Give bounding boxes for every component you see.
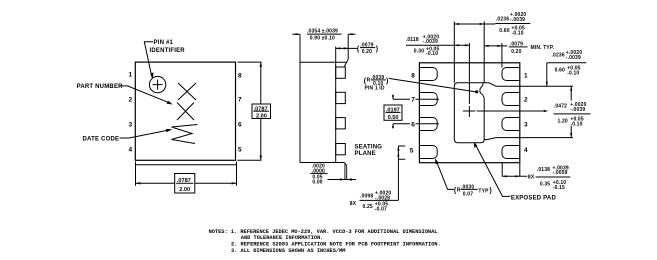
svg-text:1: 1 (129, 72, 133, 79)
svg-text:0.60: 0.60 (555, 68, 565, 74)
NOTES (209, 229, 441, 254)
svg-text:.0354 ±.0039: .0354 ±.0039 (307, 29, 338, 35)
svg-text:8: 8 (411, 72, 415, 79)
line through pad 6 (393, 123, 439, 125)
pad 2 (502, 93, 520, 106)
svg-text:.0138: .0138 (537, 167, 550, 173)
standoff foot (344, 163, 346, 180)
svg-text:PIN #1: PIN #1 (154, 40, 174, 46)
seating plane line (328, 179, 357, 181)
horizontal dimension line .0787 (136, 182, 237, 184)
svg-text:): ) (489, 187, 491, 194)
pin 1 identifier cross (153, 80, 163, 90)
extension lines bottom (136, 162, 237, 186)
boxed dimension .0787/2.00 right (252, 104, 271, 119)
svg-text:0.00: 0.00 (312, 180, 322, 186)
svg-text:.0197: .0197 (386, 107, 400, 113)
boxed dimension .0197/0.50 (384, 105, 402, 120)
svg-text:.0787: .0787 (177, 178, 191, 184)
pad 6 (419, 118, 437, 131)
bottom tab to edge (484, 138, 573, 140)
svg-text:8: 8 (238, 72, 242, 79)
leader pin1 identifier (144, 42, 153, 77)
body top edge (300, 61, 346, 63)
part number X mark 2 (177, 103, 194, 121)
body bottom edge (300, 162, 344, 164)
svg-text:0.25: 0.25 (363, 204, 373, 210)
svg-text:5: 5 (410, 147, 414, 154)
svg-text:6: 6 (238, 121, 242, 128)
dimension .0236/0.60 right (547, 62, 587, 64)
svg-text:.0472: .0472 (554, 104, 567, 110)
exposed pad outline with pin1 notch (454, 83, 484, 143)
part number X mark 1 (178, 83, 196, 100)
pitch dimension arrows (392, 95, 394, 129)
svg-text:2: 2 (129, 97, 133, 104)
svg-text:4: 4 (129, 147, 133, 154)
dimension .0079/0.20 MIN TYP (484, 45, 507, 47)
dimension .0472/1.20 (570, 86, 572, 137)
extension lines epad width (454, 22, 484, 83)
package outline (419, 63, 519, 163)
svg-text:-.0039: -.0039 (510, 17, 525, 23)
svg-text:0.07: 0.07 (463, 191, 473, 197)
leader radius typ (436, 160, 454, 189)
svg-text:PLANE: PLANE (355, 151, 376, 157)
projection line below box (136, 164, 237, 166)
RIGHT DIMENSIONS OF BOTTOM VIEW (546, 50, 591, 138)
pin 1 chamfer (345, 59, 348, 67)
svg-text:-0.10: -0.10 (570, 122, 582, 128)
svg-text:-.0059: -.0059 (553, 170, 568, 176)
svg-text:DATE CODE: DATE CODE (83, 137, 120, 143)
pad 4 width extension lines (502, 163, 520, 177)
leader date code (120, 130, 170, 138)
svg-text:7: 7 (411, 97, 415, 104)
center line horizontal with arrow (463, 110, 546, 112)
lead 2 (336, 92, 346, 103)
svg-text:0.20: 0.20 (362, 49, 372, 55)
svg-text:): ) (386, 78, 388, 85)
leader pin 1 id (389, 78, 475, 91)
svg-text:0.60: 0.60 (499, 28, 509, 34)
svg-text:0.20: 0.20 (511, 49, 521, 55)
pad 1 (502, 68, 520, 81)
top tab to edge (481, 83, 573, 87)
body left edge (299, 34, 301, 162)
svg-text:.0236: .0236 (496, 16, 509, 22)
svg-text:TYP: TYP (478, 188, 489, 194)
package body outline (135, 62, 235, 160)
svg-text:1.20: 1.20 (558, 119, 568, 125)
lead 1 (336, 67, 346, 78)
svg-text:PART NUMBER: PART NUMBER (77, 84, 124, 90)
svg-text:0.50: 0.50 (388, 115, 399, 121)
svg-text:2: 2 (524, 97, 528, 104)
BOTTOM DIMENSIONS OF BOTTOM VIEW (435, 142, 570, 202)
svg-text:6: 6 (411, 121, 415, 128)
body right edge + extension (335, 47, 337, 163)
lead 3 (336, 118, 346, 129)
svg-text:8X: 8X (350, 201, 357, 207)
MIDDLE SIDE VIEW (292, 29, 478, 186)
svg-text:2.00: 2.00 (256, 114, 267, 120)
svg-text:EXPOSED PAD: EXPOSED PAD (511, 196, 557, 202)
svg-text:1: 1 (524, 72, 528, 79)
svg-text:-0.15: -0.15 (553, 185, 565, 191)
leader part number (120, 86, 171, 103)
dimension line .0236 top (454, 23, 495, 25)
svg-text:2. REFERENCE S2083 APPLICATION: 2. REFERENCE S2083 APPLICATION NOTE FOR … (231, 242, 441, 248)
svg-text:.0236: .0236 (552, 52, 565, 58)
svg-text:-.0039: -.0039 (566, 55, 581, 61)
svg-text:0.30: 0.30 (414, 49, 424, 55)
svg-text:-0.10: -0.10 (426, 51, 438, 57)
svg-text:-.0039: -.0039 (570, 107, 585, 113)
date code zigzag (172, 125, 198, 144)
svg-text:-0.07: -0.07 (375, 206, 387, 212)
svg-text:-0.10: -0.10 (567, 70, 579, 76)
svg-text:.0118: .0118 (406, 37, 419, 43)
svg-text:4: 4 (524, 147, 528, 154)
RIGHT BOTTOM VIEW (384, 43, 573, 163)
pad 7 (419, 93, 437, 106)
dimension (.0079/0.20) (336, 47, 358, 49)
svg-text:R: R (367, 77, 371, 83)
lead 4 (336, 144, 346, 155)
leader exposed pad (475, 144, 510, 196)
svg-text:3: 3 (129, 121, 133, 128)
svg-text:): ) (376, 46, 378, 53)
svg-text:AND TOLERANCE INFORMATION.: AND TOLERANCE INFORMATION. (241, 235, 324, 241)
dimension .0354/0.90 (347, 34, 349, 59)
svg-text:0.35: 0.35 (540, 182, 550, 188)
pad 5 (419, 146, 437, 159)
extension lines right (238, 62, 262, 160)
vertical dimension line .0787 (260, 62, 262, 160)
svg-text:.0787: .0787 (254, 106, 268, 112)
LEFT TOP VIEW (77, 40, 271, 193)
svg-text:IDENTIFIER: IDENTIFIER (150, 48, 186, 54)
svg-text:0.90 ±0.10: 0.90 ±0.10 (310, 36, 335, 42)
svg-text:SEATING: SEATING (355, 145, 383, 151)
svg-text:-0.10: -0.10 (512, 31, 524, 37)
svg-text:-.0039: -.0039 (423, 39, 438, 45)
center line vertical (468, 43, 470, 117)
svg-text:5: 5 (238, 147, 242, 154)
svg-text:2.00: 2.00 (179, 187, 190, 193)
TOP DIMENSIONS OF BOTTOM VIEW (406, 12, 555, 83)
pad 3 (502, 118, 520, 131)
svg-text:.0098: .0098 (360, 193, 373, 199)
line through pad 7 (393, 98, 439, 100)
svg-text:3. ALL DIMENSIONS SHOWN AS INC: 3. ALL DIMENSIONS SHOWN AS INCHES/MM (231, 248, 345, 254)
dimension line 8X .0138 (502, 175, 527, 177)
svg-text:PIN 1 ID: PIN 1 ID (365, 86, 385, 92)
pin 1 identifier circle (149, 76, 165, 92)
svg-text:3: 3 (524, 121, 528, 128)
svg-text:7: 7 (238, 97, 242, 104)
boxed dimension .0787/2.00 bottom (175, 174, 195, 194)
svg-text:8X: 8X (528, 174, 535, 180)
pad 8 (419, 68, 437, 81)
pad 4 (502, 146, 520, 159)
dimension 8X .0098/0.25 (lead width) (350, 146, 405, 212)
svg-text:MIN. TYP.: MIN. TYP. (531, 45, 555, 51)
